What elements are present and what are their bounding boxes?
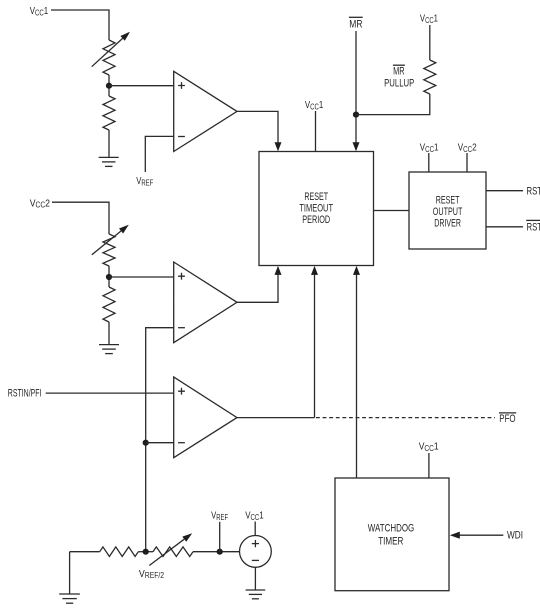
node A (VCC1 divider tap) bbox=[106, 83, 112, 89]
wire watchdog timer to reset timeout period box bbox=[356, 274, 358, 478]
resistor R4 bbox=[103, 287, 115, 322]
wire MR pullup to node D bbox=[356, 94, 430, 115]
svg-text:MR: MR bbox=[393, 66, 405, 78]
svg-text:WDI: WDI bbox=[507, 529, 523, 541]
label VCC2 (reset output driver) bbox=[458, 142, 477, 155]
svg-text:VREF/2: VREF/2 bbox=[139, 568, 164, 580]
op-amp U2 (VCC2 comparator) bbox=[174, 262, 237, 343]
label VCC1 (reference source) bbox=[245, 510, 264, 523]
resistor MR PULLUP bbox=[424, 60, 436, 94]
wire reset timeout period to reset output driver bbox=[374, 210, 410, 212]
svg-text:TIMEOUT: TIMEOUT bbox=[299, 202, 333, 214]
wire VCC2 to reset output driver bbox=[466, 153, 468, 172]
wire VCC1 to MR pullup resistor bbox=[429, 25, 431, 60]
label VCC1 (top left) bbox=[30, 5, 49, 18]
wire RSTIN/PFI to U3 + input bbox=[46, 392, 174, 394]
svg-text:OUTPUT: OUTPUT bbox=[433, 206, 463, 218]
wire WDI input bbox=[459, 534, 503, 536]
wire RST output bbox=[486, 190, 523, 192]
block RESET OUTPUT DRIVER bbox=[409, 172, 486, 249]
wire ground to R5 bbox=[70, 551, 100, 553]
node C (VREF/2 to U3) bbox=[143, 440, 149, 446]
svg-text:DRIVER: DRIVER bbox=[434, 218, 461, 230]
op-amp U1 (VCC1 comparator) bbox=[174, 71, 237, 151]
wire VCC1 to watchdog timer box bbox=[428, 453, 430, 478]
wire R5 to node E bbox=[138, 551, 153, 553]
variable resistor R3 bbox=[103, 234, 115, 266]
wire VCC1 to reset timeout period box bbox=[315, 111, 317, 152]
wire MR to reset timeout period box bbox=[355, 31, 357, 143]
variable resistor R6 (VREF/2 trim) bbox=[153, 547, 193, 557]
block WATCHDOG TIMER bbox=[335, 478, 449, 591]
wire VCC1 to R1 bbox=[51, 10, 109, 40]
node D (MR/pullup junction) bbox=[353, 112, 359, 118]
svg-text:RSTIN/PFI: RSTIN/PFI bbox=[8, 387, 42, 399]
dashed wire to PFO bbox=[316, 417, 495, 419]
wire U3 output bbox=[237, 417, 315, 419]
label VCC1 (watchdog timer) bbox=[419, 441, 439, 453]
svg-text:RESET: RESET bbox=[436, 195, 460, 207]
label VCC1 (reset output driver) bbox=[420, 142, 439, 155]
wire R2 to ground bbox=[108, 130, 110, 157]
wire node B to comparator U2 + input bbox=[109, 276, 174, 278]
wire PFI comparator to reset timeout period box bbox=[314, 274, 316, 418]
svg-text:RST: RST bbox=[527, 186, 540, 198]
wire R4 to ground bbox=[108, 322, 110, 345]
ground (reference chain left) bbox=[69, 552, 71, 594]
ground (VCC1 divider) bbox=[99, 156, 119, 158]
svg-text:PERIOD: PERIOD bbox=[302, 214, 330, 226]
variable resistor R1 bbox=[103, 40, 115, 75]
svg-text:VCC2: VCC2 bbox=[30, 198, 50, 210]
wire R1 to node A bbox=[108, 75, 110, 96]
node F (VREF node) bbox=[217, 549, 223, 555]
svg-text:RST: RST bbox=[527, 221, 540, 233]
ground (VCC2 divider) bbox=[99, 344, 119, 346]
label VREF (reference) bbox=[211, 509, 229, 522]
svg-text:PFO: PFO bbox=[499, 413, 516, 425]
wire VREF/2 rail to U2 - input bbox=[146, 328, 174, 552]
wire voltage source to ground bbox=[254, 567, 256, 590]
resistor R5 bbox=[100, 547, 139, 557]
svg-text:RESET: RESET bbox=[304, 191, 328, 203]
block RESET TIMEOUT PERIOD bbox=[259, 152, 374, 266]
label VCC1 (MR pullup) bbox=[420, 13, 438, 26]
wire node A to comparator U1 + input bbox=[109, 85, 174, 87]
label VCC2 bbox=[30, 198, 50, 210]
node E (VREF/2 node) bbox=[143, 549, 149, 555]
svg-text:MR: MR bbox=[349, 19, 362, 31]
node B (VCC2 divider tap) bbox=[106, 274, 112, 280]
svg-text:WATCHDOG: WATCHDOG bbox=[368, 523, 414, 535]
wire node C to U3 - input bbox=[146, 442, 174, 444]
wire VCC1 to voltage source bbox=[254, 522, 256, 536]
wire VREF label stub bbox=[219, 522, 221, 552]
wire VREF to U1 - input bbox=[145, 136, 173, 172]
wire U2 output to reset timeout period box bbox=[237, 274, 278, 302]
wire R3 to node B bbox=[108, 266, 110, 287]
svg-text:TIMER: TIMER bbox=[378, 535, 403, 547]
op-amp U3 (PFI comparator) bbox=[174, 377, 237, 458]
svg-text:VCC1: VCC1 bbox=[419, 441, 439, 453]
wire VCC2 to R3 bbox=[52, 202, 109, 234]
wire RST-bar output bbox=[486, 226, 523, 228]
label VCC1 (reset timeout period) bbox=[305, 99, 323, 112]
label VREF/2 bbox=[139, 568, 164, 580]
wire VCC1 to reset output driver bbox=[428, 153, 430, 172]
ground (reference source) bbox=[246, 589, 266, 591]
label VREF (U1) bbox=[136, 175, 154, 188]
voltage source VS1 bbox=[240, 536, 272, 568]
resistor R2 bbox=[103, 96, 115, 130]
wire U1 output to reset timeout period box bbox=[237, 111, 278, 143]
svg-text:PULLUP: PULLUP bbox=[384, 78, 414, 90]
wire R6 to voltage source bbox=[193, 551, 240, 553]
